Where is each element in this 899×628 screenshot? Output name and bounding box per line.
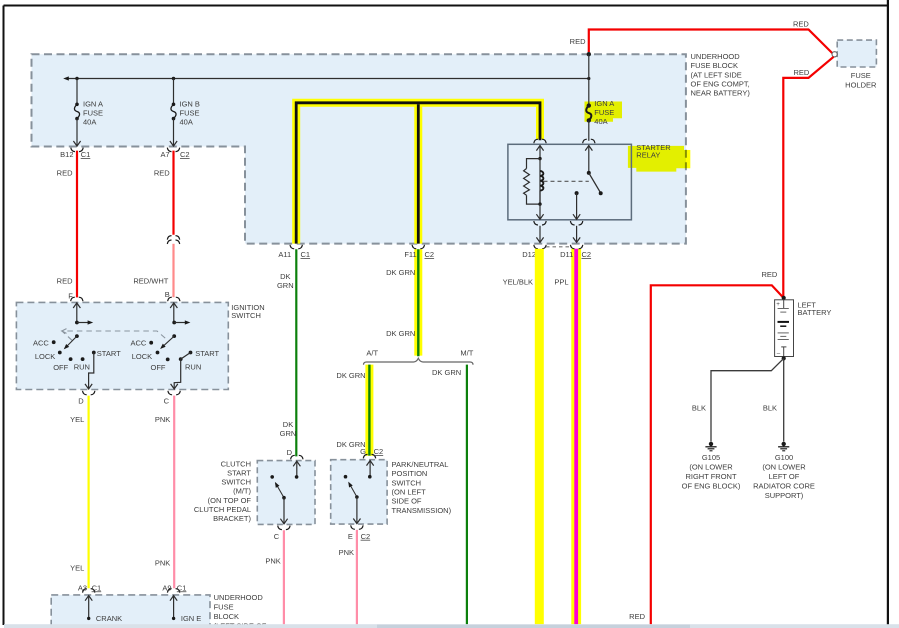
svg-text:CLUTCH PEDAL: CLUTCH PEDAL bbox=[194, 505, 251, 514]
svg-text:DK GRN: DK GRN bbox=[432, 368, 461, 377]
svg-text:RIGHT FRONT: RIGHT FRONT bbox=[685, 472, 737, 481]
wire RED B12-F bbox=[76, 151, 78, 298]
svg-text:(ON LOWER: (ON LOWER bbox=[689, 462, 733, 471]
svg-text:LEFT OF: LEFT OF bbox=[769, 472, 800, 481]
fuse IGN A 40A (relay) bbox=[587, 103, 591, 107]
fuse IGN A 40A bbox=[75, 103, 79, 107]
wire PNK ign C bbox=[173, 396, 175, 589]
wire RED to fuse holder bbox=[589, 30, 833, 54]
svg-text:PNK: PNK bbox=[155, 558, 170, 567]
svg-text:(ON LOWER: (ON LOWER bbox=[762, 462, 806, 471]
connector G cap bbox=[363, 454, 375, 458]
svg-text:C1: C1 bbox=[81, 150, 91, 159]
park/neutral position switch box bbox=[331, 460, 387, 524]
svg-text:SWITCH: SWITCH bbox=[221, 478, 251, 487]
wire START-C (R) bbox=[174, 353, 190, 390]
connector F cap bbox=[71, 297, 83, 301]
svg-text:IGN A: IGN A bbox=[83, 99, 103, 108]
contact LOCK (L) bbox=[58, 351, 62, 355]
ign right branch arrow bbox=[174, 322, 187, 324]
border frame bbox=[4, 5, 889, 7]
svg-text:START: START bbox=[195, 349, 219, 358]
contact RUN (L) bbox=[81, 357, 85, 361]
connector B cap bbox=[168, 297, 180, 301]
connector E cap bbox=[351, 525, 363, 529]
svg-text:G: G bbox=[360, 447, 366, 456]
svg-text:RED: RED bbox=[794, 68, 810, 77]
svg-text:C: C bbox=[164, 396, 170, 405]
pnp output wire bbox=[356, 497, 358, 524]
svg-text:TRANSMISSION): TRANSMISSION) bbox=[392, 506, 452, 515]
wire DK GRN M/T bbox=[466, 365, 468, 625]
svg-text:FUSE: FUSE bbox=[83, 108, 103, 117]
node relay output contact bbox=[575, 191, 579, 195]
node bus-IGN B bbox=[172, 77, 175, 80]
wire fuse to relay bbox=[588, 120, 590, 140]
bus arrow bbox=[63, 76, 69, 80]
ign right pivot bbox=[172, 334, 176, 338]
wire CRANK fuse stub bbox=[85, 596, 92, 601]
clutch pivot bbox=[282, 496, 286, 500]
svg-text:FUSE: FUSE bbox=[851, 71, 871, 80]
connector A3 cap bbox=[83, 589, 95, 593]
terminal circle fuse holder bbox=[832, 52, 837, 57]
svg-text:RUN: RUN bbox=[74, 363, 90, 372]
svg-text:C1: C1 bbox=[301, 250, 311, 259]
svg-text:E: E bbox=[348, 532, 353, 541]
wire black core A11-relay path bbox=[296, 103, 540, 244]
ign left pivot bbox=[75, 334, 79, 338]
ground G100 bbox=[782, 442, 786, 446]
svg-text:RED: RED bbox=[57, 276, 73, 285]
svg-text:BATTERY: BATTERY bbox=[798, 308, 832, 317]
svg-text:RED: RED bbox=[793, 20, 809, 29]
svg-text:–: – bbox=[777, 350, 781, 357]
wire coil out bbox=[539, 204, 541, 219]
wire PNK pnp bbox=[356, 530, 358, 624]
battery terminal node + bbox=[782, 296, 786, 300]
svg-text:RED: RED bbox=[57, 168, 73, 177]
connector A9 cap bbox=[167, 589, 179, 593]
connector A11 cap bbox=[290, 245, 302, 249]
relay connector caps bbox=[534, 139, 546, 143]
svg-text:IGN E: IGN E bbox=[181, 614, 201, 623]
svg-text:GRN: GRN bbox=[280, 429, 297, 438]
svg-text:PNK: PNK bbox=[339, 548, 354, 557]
svg-text:BLOCK: BLOCK bbox=[214, 612, 239, 621]
svg-text:HOLDER: HOLDER bbox=[845, 80, 877, 89]
ign left lever bbox=[65, 336, 77, 348]
svg-text:NEAR BATTERY): NEAR BATTERY) bbox=[691, 89, 751, 98]
svg-text:C2: C2 bbox=[374, 447, 384, 456]
svg-text:FUSE: FUSE bbox=[214, 603, 234, 612]
wire relay to D11 bbox=[576, 226, 578, 243]
svg-text:LOCK: LOCK bbox=[132, 352, 152, 361]
wire BLK to G105 bbox=[711, 359, 783, 442]
svg-text:A7: A7 bbox=[161, 150, 170, 159]
contact ACC (L) bbox=[52, 340, 56, 344]
clutch input pin bbox=[293, 461, 300, 466]
wire IGN E fuse stub bbox=[170, 596, 177, 601]
ign right lever bbox=[161, 336, 174, 348]
contact START (L) bbox=[92, 351, 96, 355]
relay coil bbox=[539, 159, 541, 205]
wire YEL/BLK (highlighted) bbox=[535, 249, 544, 624]
svg-text:C2: C2 bbox=[425, 250, 435, 259]
svg-text:YEL: YEL bbox=[70, 563, 84, 572]
svg-text:BRACKET): BRACKET) bbox=[213, 514, 251, 523]
wire RED A7 bbox=[172, 151, 174, 235]
wire START-D (L) bbox=[89, 353, 94, 390]
svg-text:OF ENG COMPT,: OF ENG COMPT, bbox=[691, 80, 750, 89]
svg-text:GRN: GRN bbox=[277, 281, 294, 290]
pnp input pin bbox=[367, 461, 374, 466]
svg-text:C1: C1 bbox=[92, 583, 102, 592]
pnp pivot bbox=[355, 495, 359, 499]
svg-text:OFF: OFF bbox=[151, 363, 166, 372]
connector A7 cap bbox=[167, 148, 179, 152]
wire highlight band PPL D11 bbox=[571, 249, 581, 624]
svg-text:C2: C2 bbox=[582, 250, 592, 259]
connector B12 cap bbox=[71, 148, 83, 152]
wire BLK to G100 bbox=[783, 358, 785, 441]
svg-text:DK: DK bbox=[283, 420, 293, 429]
wire highlight band A11-F11-relay path bbox=[296, 103, 540, 244]
svg-text:START: START bbox=[227, 469, 251, 478]
svg-text:A9: A9 bbox=[162, 583, 171, 592]
battery terminal node - bbox=[782, 356, 786, 360]
svg-text:C2: C2 bbox=[180, 150, 190, 159]
svg-text:BLK: BLK bbox=[763, 403, 777, 412]
ignition mech dashed link bbox=[62, 331, 167, 340]
svg-text:RED/WHT: RED/WHT bbox=[133, 276, 168, 285]
contact RUN (R) bbox=[179, 357, 183, 361]
relay bottom caps bbox=[534, 221, 546, 225]
svg-text:RELAY: RELAY bbox=[636, 150, 660, 159]
svg-text:RED: RED bbox=[761, 270, 777, 279]
underhood fuse block (bottom) box bbox=[51, 595, 210, 628]
wire black core F11 bbox=[417, 104, 420, 243]
wire F feed bbox=[73, 303, 80, 308]
svg-text:START: START bbox=[97, 349, 121, 358]
svg-text:A11: A11 bbox=[278, 250, 291, 259]
wire IGN A fuse feed bbox=[76, 79, 78, 105]
relay coil pin arrow bbox=[536, 146, 543, 151]
contact OFF (L) bbox=[69, 357, 73, 361]
wire DK GRN F11 core bbox=[417, 249, 419, 356]
wire DK GRN A11-D bbox=[295, 249, 297, 456]
svg-text:UNDERHOOD: UNDERHOOD bbox=[691, 52, 741, 61]
svg-text:40A: 40A bbox=[594, 117, 607, 126]
node relay switch pivot bbox=[587, 171, 591, 175]
wire RED/WHT bbox=[172, 244, 174, 297]
svg-text:DK: DK bbox=[280, 272, 290, 281]
svg-text:YEL/BLK: YEL/BLK bbox=[503, 277, 533, 286]
clutch start switch box bbox=[257, 461, 315, 525]
clutch output wire bbox=[283, 498, 285, 524]
clutch lever bbox=[276, 483, 284, 498]
wire PPL core bbox=[574, 249, 578, 624]
wire break symbol bbox=[167, 236, 179, 240]
svg-text:PNK: PNK bbox=[155, 415, 170, 424]
svg-text:G100: G100 bbox=[775, 453, 793, 462]
wire relay to D12 bbox=[539, 226, 541, 243]
svg-text:OFF: OFF bbox=[53, 363, 68, 372]
wire bus to relay fuse bbox=[588, 79, 590, 106]
svg-text:SWITCH: SWITCH bbox=[392, 478, 422, 487]
svg-text:RED: RED bbox=[154, 168, 170, 177]
brace A/T M/T bbox=[364, 358, 474, 365]
node RED junction bbox=[587, 52, 591, 56]
connector D cap bbox=[83, 391, 95, 395]
wire PNK clutch bbox=[283, 530, 285, 624]
svg-text:RADIATOR CORE: RADIATOR CORE bbox=[753, 482, 815, 491]
svg-text:RED: RED bbox=[629, 612, 645, 621]
svg-text:CRANK: CRANK bbox=[96, 614, 122, 623]
wire A7 exit bbox=[173, 119, 175, 147]
svg-text:FUSE BLOCK: FUSE BLOCK bbox=[691, 61, 739, 70]
svg-text:FUSE: FUSE bbox=[594, 108, 614, 117]
underhood fuse block (top) box bbox=[32, 54, 686, 243]
svg-text:ACC: ACC bbox=[130, 339, 146, 348]
svg-text:+: + bbox=[776, 301, 780, 308]
svg-text:IGN B: IGN B bbox=[180, 99, 200, 108]
contact OFF (R) bbox=[166, 358, 170, 362]
connector D cap (clutch) bbox=[291, 455, 303, 459]
connector C cap bbox=[168, 391, 180, 395]
svg-text:B12: B12 bbox=[60, 150, 73, 159]
relay switch pin bbox=[588, 145, 590, 173]
wire DK GRN A/T core bbox=[368, 365, 370, 456]
svg-text:PARK/NEUTRAL: PARK/NEUTRAL bbox=[392, 460, 449, 469]
svg-text:PNK: PNK bbox=[265, 556, 280, 565]
battery LEFT BATTERY bbox=[775, 300, 794, 357]
fuse IGN B 40A bbox=[172, 103, 176, 107]
node coil bottom bbox=[538, 202, 541, 205]
svg-text:D11: D11 bbox=[560, 250, 573, 259]
svg-text:CLUTCH: CLUTCH bbox=[221, 459, 251, 468]
svg-text:YEL: YEL bbox=[70, 415, 84, 424]
svg-text:D12: D12 bbox=[522, 250, 536, 259]
connector C2 dashed link bbox=[546, 246, 571, 248]
wire B12 exit bbox=[76, 119, 78, 147]
svg-text:DK GRN: DK GRN bbox=[386, 329, 415, 338]
starter relay box bbox=[508, 144, 632, 220]
bottom band bbox=[4, 624, 899, 628]
svg-text:(ON TOP OF: (ON TOP OF bbox=[208, 496, 252, 505]
svg-text:D: D bbox=[78, 396, 84, 405]
svg-text:RUN: RUN bbox=[185, 363, 201, 372]
svg-text:OF ENG BLOCK): OF ENG BLOCK) bbox=[682, 482, 741, 491]
bus wire bbox=[66, 78, 589, 80]
resistor (relay) bbox=[527, 159, 541, 169]
svg-text:POSITION: POSITION bbox=[392, 469, 428, 478]
connector D12 cap bbox=[534, 245, 546, 249]
contact ACC (R) bbox=[149, 341, 153, 345]
svg-text:G105: G105 bbox=[702, 453, 720, 462]
node bus-IGN A bbox=[75, 77, 78, 80]
svg-text:DK GRN: DK GRN bbox=[336, 371, 365, 380]
ground G105 bbox=[709, 442, 713, 446]
svg-text:RED: RED bbox=[570, 37, 586, 46]
node ign right bbox=[172, 321, 176, 325]
clutch contact bbox=[270, 475, 274, 479]
contact START (R) bbox=[189, 351, 193, 355]
svg-text:A/T: A/T bbox=[366, 348, 378, 357]
ignition switch box bbox=[16, 302, 228, 389]
node bus end bbox=[587, 77, 590, 80]
svg-text:C: C bbox=[274, 532, 280, 541]
wire B feed bbox=[170, 303, 177, 308]
relay switch lever bbox=[589, 173, 600, 192]
svg-text:M/T: M/T bbox=[460, 348, 473, 357]
contact LOCK (R) bbox=[156, 351, 160, 355]
svg-text:40A: 40A bbox=[180, 117, 193, 126]
highlight IGN A fuse bbox=[585, 102, 623, 122]
wire highlight band F11 DK GRN below box bbox=[414, 249, 422, 355]
svg-text:F11: F11 bbox=[404, 250, 416, 259]
node coil top bbox=[538, 157, 541, 160]
svg-text:(AT LEFT SIDE: (AT LEFT SIDE bbox=[691, 70, 742, 79]
svg-text:SUPPORT): SUPPORT) bbox=[765, 491, 804, 500]
connector C cap (clutch) bbox=[278, 526, 290, 530]
connector D11 cap bbox=[570, 245, 582, 249]
svg-text:ACC: ACC bbox=[33, 339, 49, 348]
wire highlight band A/T branch bbox=[365, 365, 373, 456]
ign left branch arrow bbox=[77, 322, 90, 324]
svg-text:(ON LEFT: (ON LEFT bbox=[392, 488, 427, 497]
connector F11 cap bbox=[412, 245, 424, 249]
svg-text:SWITCH: SWITCH bbox=[231, 311, 261, 320]
node ign left bbox=[75, 321, 79, 325]
wire RED branch to starter bbox=[651, 285, 783, 624]
pnp contact bbox=[344, 475, 348, 479]
svg-text:BLK: BLK bbox=[692, 403, 706, 412]
svg-text:UNDERHOOD: UNDERHOOD bbox=[214, 593, 264, 602]
svg-text:PPL: PPL bbox=[554, 277, 568, 286]
wire RED from fuse holder bbox=[783, 57, 833, 297]
wire relay output bbox=[576, 193, 578, 219]
wire YEL bbox=[87, 396, 89, 589]
highlight STARTER RELAY bbox=[628, 146, 690, 172]
svg-text:SIDE OF: SIDE OF bbox=[392, 497, 422, 506]
wire IGN B fuse feed bbox=[173, 79, 175, 105]
svg-text:FUSE: FUSE bbox=[180, 108, 200, 117]
svg-text:IGN A: IGN A bbox=[594, 99, 614, 108]
wire junction to bus bbox=[588, 54, 590, 78]
svg-text:A3: A3 bbox=[78, 583, 87, 592]
svg-text:C1: C1 bbox=[177, 583, 187, 592]
svg-text:LOCK: LOCK bbox=[35, 352, 55, 361]
relay armature dashed link bbox=[544, 180, 589, 182]
svg-text:40A: 40A bbox=[83, 117, 96, 126]
svg-text:DK GRN: DK GRN bbox=[386, 268, 415, 277]
fuse holder box bbox=[837, 40, 876, 67]
svg-text:(M/T): (M/T) bbox=[233, 487, 251, 496]
pnp lever bbox=[349, 483, 357, 497]
svg-text:C2: C2 bbox=[361, 532, 371, 541]
